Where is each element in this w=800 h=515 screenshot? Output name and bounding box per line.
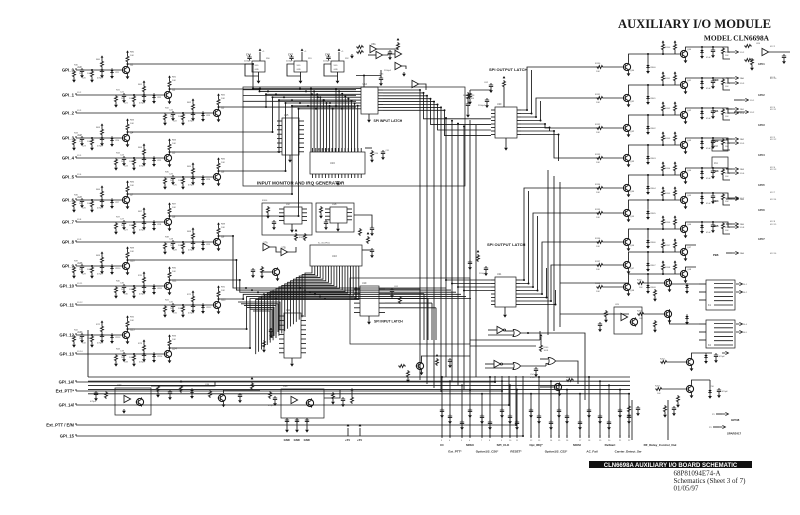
resistor R18 [164, 242, 167, 250]
resistor R64 [143, 148, 146, 156]
pin U21 1 [491, 279, 495, 281]
diode CR9 [201, 240, 204, 246]
transistor Q44 [623, 183, 631, 192]
+5V supply arrow [180, 380, 183, 383]
svg-text:CR45: CR45 [650, 213, 656, 215]
diode CR8 [152, 220, 155, 226]
pin 15 U15 [299, 124, 304, 126]
capacitor C28 [171, 240, 175, 245]
svg-text:2200pF: 2200pF [478, 105, 486, 107]
pin U21 16 [516, 279, 520, 281]
pin stub [628, 435, 630, 438]
wire connector stub 6 [489, 377, 491, 437]
transistor Q41 [623, 93, 631, 102]
wire input [503, 363, 514, 365]
wire [723, 230, 730, 234]
wire [467, 100, 469, 104]
resistor R202 [660, 361, 668, 364]
+5V supply arrow [662, 40, 665, 43]
wire U10 right [362, 249, 372, 251]
wire to OR3 [521, 365, 546, 367]
ground [238, 398, 242, 403]
jumper box J11 [712, 157, 728, 168]
svg-text:GPI_9: GPI_9 [62, 264, 75, 269]
junction [133, 94, 135, 96]
ground [295, 428, 299, 433]
junction [329, 105, 331, 107]
pin U19 10 [379, 297, 385, 299]
junction [647, 251, 649, 253]
pin 13 U14 [378, 98, 383, 100]
pin U11 7 [279, 343, 284, 345]
capacitor C40 [100, 68, 104, 73]
pin 10 U15 [299, 146, 304, 148]
svg-text:GPI_2: GPI_2 [62, 111, 75, 116]
ground [684, 59, 688, 64]
capacitor C44 [247, 55, 251, 60]
pin U10 10 [336, 266, 338, 270]
pin 13 U15 [299, 133, 304, 135]
svg-text:R152: R152 [665, 108, 671, 110]
ground [114, 230, 118, 235]
junction [285, 170, 287, 172]
diode CR10 [110, 264, 113, 270]
pin 4 U16 [321, 174, 323, 178]
wire GPI_11 output to lower latch bus [219, 294, 462, 299]
capacitor C50 [142, 284, 146, 289]
svg-text:Opt_IRQ*: Opt_IRQ* [529, 443, 543, 447]
svg-text:R136: R136 [595, 238, 601, 240]
junction [298, 215, 300, 217]
ground [114, 166, 118, 171]
wire GPI_12 to base [76, 334, 122, 336]
ground [484, 271, 488, 276]
top pin 1 U16 [312, 148, 314, 152]
svg-text:CR40: CR40 [650, 67, 656, 69]
diode CR30 [190, 388, 193, 394]
+5V supply arrow [168, 266, 171, 269]
junction [363, 75, 365, 77]
diode CR61 [700, 79, 703, 85]
junction [272, 96, 274, 98]
wire collector [218, 171, 220, 172]
svg-text:R154: R154 [665, 168, 671, 170]
resistor R20 [115, 286, 118, 294]
ground [370, 253, 374, 258]
svg-text:470pF: 470pF [97, 343, 104, 345]
pin U19 7 [379, 312, 385, 314]
junction [355, 287, 357, 289]
junction [291, 105, 293, 107]
resistor R51 [182, 305, 185, 313]
svg-text:GPI_14/: GPI_14/ [59, 403, 75, 408]
wire comb bus extra line [243, 95, 356, 97]
transistor Q73 [686, 384, 694, 393]
wire to connector [723, 222, 732, 227]
wire pull-up [143, 210, 145, 212]
wire long vertical run [469, 120, 471, 394]
diode CR47 [646, 261, 649, 267]
diode CR60 [700, 48, 703, 54]
resistor R152 [662, 104, 665, 112]
wire collector run [629, 252, 680, 260]
wire comb vertical [351, 101, 353, 152]
junction [319, 96, 321, 98]
wire comb vertical [341, 94, 343, 152]
junction [550, 300, 552, 302]
+5V supply arrow [217, 93, 220, 96]
svg-text:01/05/97: 01/05/97 [674, 485, 699, 493]
svg-text:RF_Relay_Control_Out: RF_Relay_Control_Out [644, 443, 677, 447]
svg-text:PB6: PB6 [713, 253, 719, 257]
wire U19 output [385, 288, 420, 290]
resistor R120 [105, 391, 108, 399]
wire [218, 225, 220, 227]
svg-text:417-15: 417-15 [770, 224, 777, 226]
junction [451, 283, 453, 285]
junction [523, 279, 525, 281]
svg-text:GPI_6: GPI_6 [62, 198, 75, 203]
capacitor C96 [714, 353, 718, 358]
ground [646, 244, 650, 249]
ground [607, 425, 611, 430]
wire U20 pin to output row 2 [521, 98, 600, 117]
wire GPI_10 output to lower latch bus [170, 280, 457, 292]
ground [557, 413, 561, 418]
top pin 11 U16 [344, 148, 346, 152]
ground [126, 143, 130, 148]
wire [363, 76, 365, 88]
svg-text:C47: C47 [288, 53, 293, 57]
resistor R154 [662, 164, 665, 172]
svg-text:AC_Fail: AC_Fail [586, 450, 597, 454]
junction [662, 199, 664, 201]
svg-text:10K: 10K [172, 339, 176, 341]
svg-text:GPI_12: GPI_12 [59, 333, 74, 338]
wire U20 pin to output row 4 [521, 131, 600, 158]
top pin 7 U16 [331, 148, 333, 152]
wire [127, 183, 129, 185]
junction [463, 125, 465, 127]
resistor R13 [73, 138, 76, 146]
ground [367, 118, 371, 123]
wire input bend [546, 364, 548, 367]
ground [191, 245, 195, 250]
resistor R205 [654, 289, 657, 297]
wire long vertical [559, 182, 561, 327]
ground [336, 79, 340, 84]
+5V supply arrow [217, 222, 220, 225]
wire [397, 49, 399, 50]
pin U17 2 [279, 212, 284, 214]
ground [448, 363, 452, 368]
junction [329, 102, 331, 104]
pin stub [566, 435, 568, 438]
diode CR13 [110, 333, 113, 339]
pin U20 15 [517, 113, 521, 115]
capacitor C33 [122, 352, 126, 357]
resistor R60 [101, 60, 104, 68]
+5V supply arrow [101, 55, 104, 58]
wire comb vertical [338, 91, 340, 152]
junction [341, 108, 343, 110]
junction [169, 215, 171, 217]
svg-text:470pF: 470pF [97, 274, 104, 276]
pin 6 U15 [277, 142, 282, 144]
wire [368, 54, 376, 56]
svg-text:R158: R158 [665, 267, 671, 269]
capacitor C91 [711, 79, 715, 84]
wire [645, 313, 664, 315]
capacitor C106 [500, 408, 504, 413]
top pin 8 U16 [334, 148, 336, 152]
wire to connector [723, 108, 732, 113]
pin U20 2 [491, 113, 495, 115]
wire bus fan line [259, 270, 356, 352]
ground [222, 403, 226, 408]
pin U10 12 [341, 266, 343, 270]
opto transistor [630, 317, 638, 326]
wire collector [127, 132, 129, 133]
wire U21 pin stub 8 [520, 290, 556, 305]
ground [508, 419, 512, 424]
connector pin arrow [732, 51, 738, 54]
svg-text:R130: R130 [595, 63, 601, 65]
resistor R195 [722, 193, 725, 201]
ground [152, 226, 156, 231]
wire [674, 142, 676, 145]
resistor R193 [722, 138, 725, 146]
resistor R50 [133, 286, 136, 294]
junction [647, 53, 649, 55]
wire collector [127, 194, 129, 195]
pin stub [481, 435, 483, 438]
resistor R130 [596, 66, 604, 69]
wire GPI_9 to base [76, 265, 122, 267]
wire connector stub 1 [441, 377, 443, 437]
pin U21 9 [516, 304, 520, 306]
wire +5V stub 1 [347, 428, 349, 436]
pin 6 U16 [328, 174, 330, 178]
resistor R40 [91, 70, 94, 78]
svg-text:10K: 10K [129, 98, 133, 100]
wire [169, 205, 171, 207]
resistor R71 [192, 295, 195, 303]
wire [647, 115, 649, 124]
wire supply stub [338, 52, 340, 61]
wire connector stub 2 [449, 381, 451, 437]
resistor R204 [677, 395, 680, 403]
pin U10 11 [339, 266, 341, 270]
svg-text:CR41: CR41 [650, 98, 656, 100]
pin 13 U16 [351, 174, 353, 178]
wire Q collector out [686, 267, 697, 269]
ground [488, 425, 492, 430]
svg-text:47uF: 47uF [706, 203, 711, 205]
wire U20 pin stub 8 [521, 135, 559, 162]
svg-text:10K: 10K [596, 217, 600, 219]
junction [101, 199, 103, 201]
ground [504, 146, 508, 151]
wire connector stub 19 [619, 390, 621, 437]
wire collector [169, 348, 171, 349]
junction [269, 295, 271, 297]
wire stub [667, 400, 669, 425]
ground [700, 200, 704, 205]
capacitor C98 [717, 388, 721, 393]
svg-text:GPO7: GPO7 [758, 238, 765, 241]
junction [712, 192, 714, 194]
wire collector [169, 89, 171, 90]
junction [662, 84, 664, 86]
pin stub GPI_4 [75, 156, 77, 158]
wire long vertical run [463, 126, 465, 389]
+5V supply arrow [192, 162, 195, 165]
capacitor C109 [529, 408, 533, 413]
transistor Q5 [164, 153, 172, 162]
svg-text:10K: 10K [221, 290, 225, 292]
resistor R156 [662, 218, 665, 226]
junction [508, 404, 510, 406]
ground [163, 121, 167, 126]
resistor R62 [192, 103, 195, 111]
resistor R70 [143, 276, 146, 284]
svg-text:SPI OUTPUT LATCH: SPI OUTPUT LATCH [487, 242, 525, 247]
pin stub [441, 435, 443, 438]
wire collector [218, 299, 220, 300]
ground [684, 279, 688, 284]
junction [314, 293, 316, 295]
wire long vertical [547, 170, 549, 335]
connector pin arrow lower [732, 108, 738, 111]
pin 9 U15 [299, 151, 304, 153]
pin U10 8 [330, 266, 332, 270]
transistor Q20 [272, 267, 280, 276]
wire [726, 108, 732, 110]
pin stub [588, 435, 590, 438]
ground [448, 419, 452, 424]
resistor R61 [143, 85, 146, 93]
pin 16 U15 [299, 120, 304, 122]
wire Q75 collector [422, 356, 471, 361]
wire pull-up [101, 323, 103, 325]
transistor Q64 [680, 170, 688, 179]
transistor Q42 [623, 123, 631, 132]
jumper box J10 [712, 140, 728, 151]
ground [646, 130, 650, 135]
transistor Q47 [623, 260, 631, 269]
resistor R220 [744, 45, 752, 48]
resistor R63 [101, 128, 104, 136]
wire loop C47 [287, 64, 301, 76]
pin 8 U14 [356, 108, 361, 110]
wire [470, 89, 491, 91]
resistor R95 [356, 46, 364, 49]
junction [313, 90, 315, 92]
diode CR11 [152, 284, 155, 290]
pin U18 5 [347, 219, 352, 221]
svg-text:10K: 10K [596, 246, 600, 248]
pin U18 6 [347, 215, 352, 217]
junction [354, 102, 356, 104]
wire latch2 feed [452, 283, 491, 285]
resistor R43 [91, 138, 94, 146]
pin stub [558, 435, 560, 438]
+5V supply arrow [662, 186, 665, 189]
wire Q collector out [686, 108, 724, 110]
wire pull-up [143, 83, 145, 85]
svg-text:GPI_0: GPI_0 [62, 68, 75, 73]
connector pin arrow [732, 82, 738, 85]
ground [690, 367, 694, 372]
pin U19 8 [379, 307, 385, 309]
relay K1 internal line 3 [714, 291, 733, 293]
transistor Q66 [680, 224, 688, 233]
wire bus fan line [302, 270, 315, 317]
junction [143, 353, 145, 355]
capacitor C56 [324, 220, 328, 225]
wire U21 pin stub 4 [520, 216, 538, 291]
wire U20 pin stub 4 [521, 101, 541, 121]
junction [182, 112, 184, 114]
svg-text:U10: U10 [332, 254, 337, 258]
junction [469, 389, 471, 391]
ground [181, 250, 185, 255]
junction [355, 298, 357, 300]
wire GPI_4 output to input latch bus [170, 100, 357, 152]
pin stub [509, 435, 511, 438]
pin U11 17 [301, 320, 306, 322]
pin 4 U14 [356, 96, 361, 98]
wire connector stub 5 [481, 394, 483, 437]
wire [645, 282, 664, 284]
ground [80, 338, 84, 343]
wire [723, 86, 730, 90]
ground [122, 289, 126, 294]
svg-text:10K: 10K [178, 308, 182, 310]
pin stub [501, 435, 503, 438]
opto diode symbol [291, 396, 298, 403]
junction [537, 290, 539, 292]
pin 3 U14 [356, 93, 361, 95]
junction [712, 77, 714, 79]
capacitor C47 [142, 220, 146, 225]
transistor Q43 [623, 153, 631, 162]
junction [662, 273, 664, 275]
pin 1 U14 [356, 88, 361, 90]
ground [700, 229, 704, 234]
wire [258, 76, 260, 79]
svg-text:10K: 10K [87, 73, 91, 75]
op-amp U6D [412, 80, 419, 87]
pin 5 U14 [356, 99, 361, 101]
+5V supply arrow [477, 250, 480, 253]
opto diode symbol [124, 395, 131, 402]
wire [289, 155, 291, 158]
pin U19 9 [379, 302, 385, 304]
resistor R192 [722, 108, 725, 116]
opto-isolator U12 box [115, 388, 151, 415]
ground [171, 180, 175, 185]
wire [709, 380, 711, 388]
pin 1 U16 [312, 174, 314, 178]
pin K1 1 [699, 283, 706, 285]
transistor Q40 [623, 62, 631, 71]
ground [466, 113, 470, 118]
+5V supply arrow [674, 186, 677, 189]
resistor R155 [662, 189, 665, 197]
wire U19 riser [435, 308, 437, 340]
